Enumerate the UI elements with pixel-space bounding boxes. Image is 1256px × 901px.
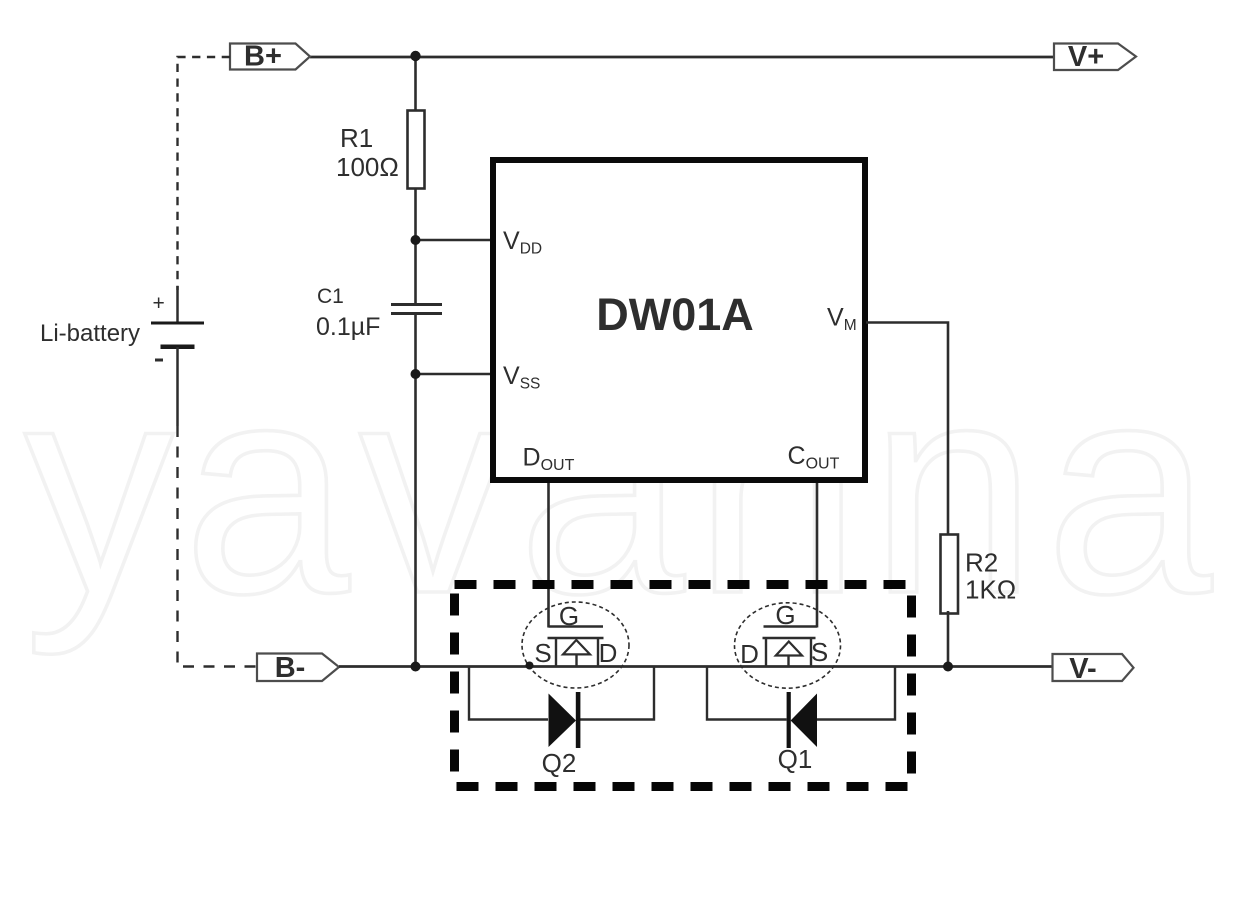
svg-text:G: G <box>775 600 795 630</box>
svg-text:S: S <box>811 637 828 667</box>
transistor Q1 drain lead <box>765 638 767 667</box>
svg-text:V+: V+ <box>1068 41 1104 73</box>
svg-text:S: S <box>534 638 551 668</box>
node R2 rail junction <box>943 662 953 672</box>
wire top rail B+ to V+ <box>310 56 1054 59</box>
svg-text:0.1µF: 0.1µF <box>316 313 380 341</box>
svg-text:+: + <box>153 292 165 315</box>
wire R2 to bottom rail <box>947 611 950 667</box>
flag V+ <box>1054 44 1136 71</box>
flag B+ <box>230 44 310 70</box>
node Q2 circle-rail dot <box>526 662 534 670</box>
flag V- <box>1053 654 1134 681</box>
transistor Q1 channel bar <box>763 637 816 640</box>
diode Q1 body diode loop <box>707 667 787 720</box>
svg-text:B+: B+ <box>244 41 282 73</box>
battery Li-battery <box>151 322 204 325</box>
dashed wire battery negative to B- <box>178 426 258 667</box>
svg-text:DW01A: DW01A <box>596 289 754 340</box>
svg-text:100Ω: 100Ω <box>336 152 399 182</box>
transistor Q1 source lead <box>810 638 812 667</box>
transistor Q1 substrate arrow <box>776 642 802 656</box>
wire C1 to VSS node and down to bottom rail <box>414 315 417 667</box>
dashed dual-MOSFET package box <box>455 585 912 787</box>
svg-text:V-: V- <box>1069 653 1096 685</box>
transistor Q1 body circle <box>735 603 841 688</box>
node bottom rail trunk junction <box>411 662 421 672</box>
dashed wire battery positive to B+ <box>178 57 231 290</box>
wire battery negative lead <box>176 347 179 426</box>
svg-text:1KΩ: 1KΩ <box>965 575 1016 605</box>
flag B- <box>257 654 339 682</box>
node B+ rail junction <box>410 51 420 61</box>
svg-text:G: G <box>559 601 579 631</box>
wire trunk top (B+ rail to R1) <box>414 57 417 112</box>
wire DOUT to Q2 gate <box>547 483 550 628</box>
node VDD junction <box>411 235 421 245</box>
svg-text:Q1: Q1 <box>778 744 813 774</box>
resistor R1 <box>408 111 425 189</box>
IC U1 DW01A box <box>493 160 865 480</box>
wire VM to R2 <box>866 323 948 536</box>
transistor Q2 drain lead <box>597 638 599 667</box>
transistor Q2 channel bar <box>548 637 604 640</box>
svg-text:R1: R1 <box>340 123 373 153</box>
diode Q2 anode triangle <box>549 694 577 748</box>
transistor Q2 gate bar <box>549 625 604 627</box>
transistor Q2 substrate arrow <box>563 640 590 654</box>
wire battery positive lead <box>176 286 179 323</box>
wire R1 to VDD node <box>414 189 417 304</box>
diode Q2 body diode loop <box>469 667 548 720</box>
diode Q1 anode triangle <box>791 694 817 748</box>
svg-text:D: D <box>740 639 759 669</box>
diode Q1 cathode bar <box>787 692 791 748</box>
svg-text:Q2: Q2 <box>542 748 577 778</box>
svg-text:C1: C1 <box>317 285 344 308</box>
svg-text:B-: B- <box>275 652 306 684</box>
wire VSS stub <box>414 373 493 376</box>
svg-text:R2: R2 <box>965 548 998 578</box>
transistor Q2 source lead <box>555 638 557 667</box>
node VSS junction <box>411 369 421 379</box>
svg-text:Li-battery: Li-battery <box>40 320 140 347</box>
transistor Q1 gate bar <box>764 625 818 627</box>
transistor Q2 body circle <box>522 602 629 688</box>
wire VDD stub <box>414 239 493 242</box>
diode Q2 cathode bar <box>576 692 581 748</box>
wire COUT to Q1 gate <box>816 483 819 628</box>
capacitor C1 <box>391 305 442 314</box>
resistor R2 <box>941 535 959 614</box>
wire bottom rail B- to V- <box>339 665 1054 668</box>
svg-text:D: D <box>599 638 618 668</box>
